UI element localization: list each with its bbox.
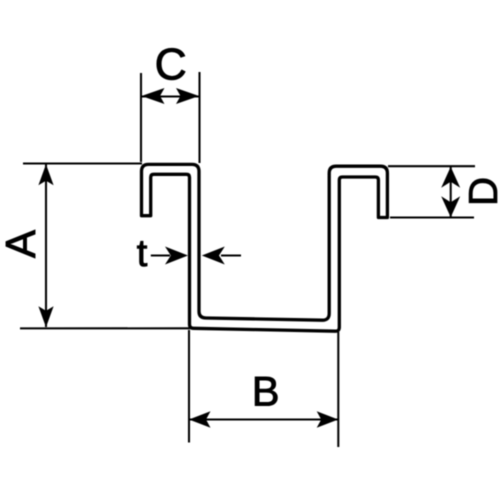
dimension C: horizontal dimension line xyxy=(142,95,199,97)
dimension A: top extension line xyxy=(23,162,142,164)
dimension D: top extension line xyxy=(388,165,475,167)
dimension t: right leader line xyxy=(221,254,241,256)
profile outline (hat-channel cross-section) xyxy=(142,164,388,331)
dimension D: up arrowhead xyxy=(441,167,460,188)
dimension D: down arrowhead xyxy=(441,196,460,217)
dimension t: right arrowhead (points left at wall) xyxy=(202,247,225,265)
dimension C: left extension line xyxy=(140,73,142,162)
dimension C: left arrowhead xyxy=(142,88,165,104)
label D (rotated) xyxy=(469,179,497,203)
dimension D: bottom extension line xyxy=(390,216,474,218)
dimension B: right extension line xyxy=(337,332,339,447)
label B xyxy=(255,377,277,406)
dimension A: down arrowhead xyxy=(38,306,53,327)
dimension B: left extension line xyxy=(188,330,190,443)
dimension C: right arrowhead xyxy=(176,88,199,104)
dimension t: left leader line xyxy=(151,254,170,256)
label t xyxy=(137,241,147,266)
dimension A: bottom extension line xyxy=(20,327,190,329)
dimension B: horizontal dimension line xyxy=(189,418,338,420)
label C xyxy=(157,48,185,80)
dimension t: left arrowhead (points right at wall) xyxy=(165,247,188,265)
dimension A: up arrowhead xyxy=(38,164,53,185)
dimension B: left arrowhead xyxy=(189,411,211,427)
dimension D: vertical dimension line xyxy=(450,167,452,217)
dimension A: vertical dimension line xyxy=(45,165,47,328)
label A (rotated) xyxy=(6,230,35,258)
dimension B: right arrowhead xyxy=(317,411,339,427)
dimension C: right extension line xyxy=(198,72,200,163)
